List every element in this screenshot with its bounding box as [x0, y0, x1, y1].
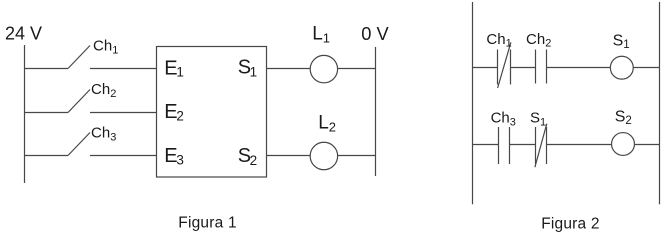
svg-text:L2: L2: [318, 112, 336, 134]
wire ladder rung1 from Ch2 to coil S1: [547, 67, 611, 69]
contact S1 (NC) right bar: [546, 127, 548, 164]
wire ladder rung1 between Ch1 and Ch2: [511, 67, 536, 69]
contact S1 (NC) slash: [535, 124, 547, 168]
svg-text:Ch1: Ch1: [93, 38, 118, 57]
svg-text:Ch2: Ch2: [526, 31, 551, 50]
wire pin S1 to lamp L1: [267, 68, 311, 70]
svg-text:Figura 2: Figura 2: [541, 216, 599, 233]
wire rung2 right segment to pin E2: [90, 112, 157, 114]
svg-text:Ch2: Ch2: [91, 81, 116, 100]
lamp L1: [310, 55, 337, 82]
wire rung2 left segment: [25, 112, 69, 114]
svg-text:E3: E3: [164, 145, 184, 167]
wire rung3 right segment to pin E3: [90, 155, 157, 157]
contact Ch1 (NC) slash: [498, 42, 511, 88]
wire ladder rung2 from S1 contact to coil S2: [547, 144, 612, 146]
contact Ch3 (NO) left bar: [498, 127, 500, 164]
svg-text:Ch3: Ch3: [91, 125, 116, 144]
contact Ch3 (NO) right bar: [509, 127, 511, 164]
svg-text:S1: S1: [613, 33, 630, 51]
wire ladder rung2 from left rail to contact Ch3: [473, 144, 499, 146]
svg-text:24 V: 24 V: [5, 24, 42, 44]
contact Ch2 (NO) right bar: [546, 50, 548, 84]
net 0V return rail (Figura 1 right bus): [375, 47, 377, 176]
svg-text:Figura 1: Figura 1: [178, 215, 236, 232]
switch Ch3 blade: [68, 133, 90, 156]
wire rung3 left segment: [25, 155, 69, 157]
wire coil S1 to right rail: [633, 67, 659, 69]
svg-text:S1: S1: [238, 57, 257, 80]
svg-text:Ch1: Ch1: [486, 31, 511, 50]
controller box U1: [157, 47, 267, 178]
svg-text:0 V: 0 V: [361, 23, 389, 44]
svg-text:S2: S2: [615, 109, 632, 128]
coil S2: [612, 133, 635, 156]
ladder left power rail (Figura 2): [472, 2, 474, 204]
coil S1: [610, 56, 633, 79]
wire lamp L2 to 0V rail: [338, 155, 376, 157]
svg-text:L1: L1: [312, 23, 330, 45]
svg-text:S2: S2: [238, 145, 257, 168]
net +24V supply rail (Figura 1 left bus): [24, 45, 26, 183]
wire rung1 left segment: [25, 68, 69, 70]
contact Ch2 (NO) left bar: [535, 50, 537, 84]
wire ladder rung1 from left rail to contact Ch1: [473, 67, 498, 69]
contact S1 (NC) left bar: [535, 127, 537, 164]
svg-text:E2: E2: [164, 101, 184, 123]
switch Ch2 blade: [68, 90, 90, 113]
wire rung1 right segment to pin E1: [90, 68, 157, 70]
wire coil S2 to right rail: [635, 144, 660, 146]
ladder right power rail (Figura 2): [659, 2, 661, 204]
contact Ch1 (NC) left bar: [497, 50, 499, 85]
svg-text:Ch3: Ch3: [491, 110, 516, 129]
contact Ch1 (NC) right bar: [510, 50, 512, 85]
svg-text:E1: E1: [164, 57, 184, 79]
lamp L2: [310, 142, 338, 170]
wire pin S2 to lamp L2: [267, 155, 311, 157]
svg-text:S1: S1: [530, 110, 546, 129]
wire lamp L1 to 0V rail: [338, 68, 376, 70]
wire ladder rung2 between Ch3 and S1 contact: [510, 144, 536, 146]
switch Ch1 blade: [68, 46, 90, 69]
